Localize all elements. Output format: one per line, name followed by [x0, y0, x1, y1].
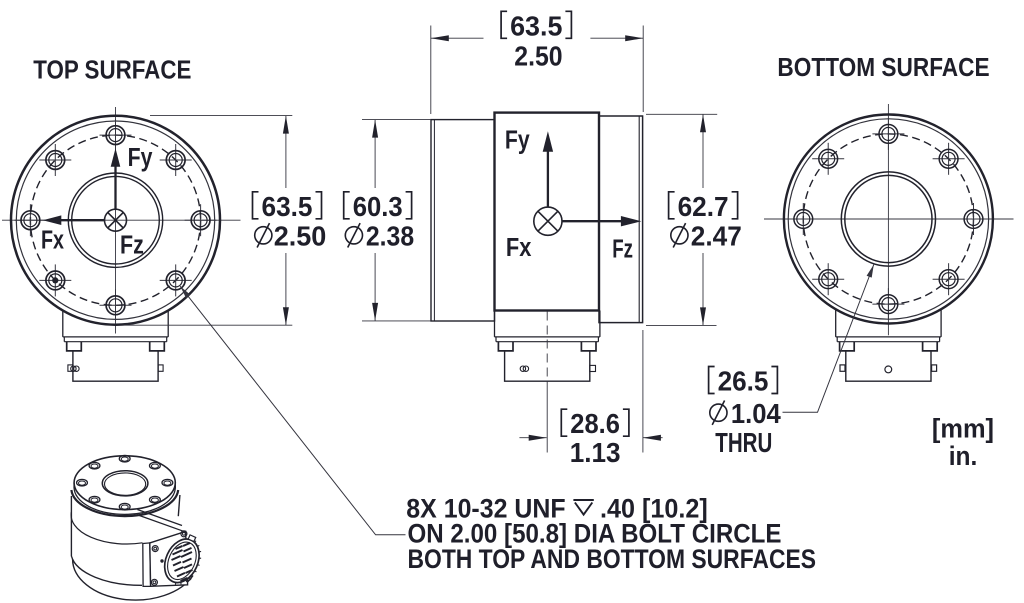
thru hole callout text [26.5]: [709, 367, 778, 394]
isometric view central hole ellipses: [102, 471, 148, 496]
right view bolt hole upper-left (10-32 UNF): [812, 143, 844, 175]
left view bolt hole upper-left (10-32 UNF): [39, 144, 71, 176]
isometric view connector plate screws: [181, 531, 187, 537]
right view bolt hole left (10-32 UNF): [787, 203, 819, 235]
svg-text:THRU: THRU: [715, 427, 772, 458]
isometric view top flange ellipse: [74, 456, 175, 510]
isometric view connector barrel: [157, 530, 209, 591]
svg-text:1.04: 1.04: [731, 398, 781, 429]
right dimension extension lines: [646, 113, 717, 115]
right view central thru hole chamfer circle: [841, 172, 935, 266]
connector body box: [846, 351, 931, 381]
left view flange inner ring circle: [16, 121, 214, 319]
isometric view bolt hole lower-right: [150, 496, 161, 503]
sensor body below flange (side walls): [495, 311, 600, 337]
side view central flange block (dia 2.50): [495, 113, 600, 311]
side view center axis symbol (circled X): [534, 207, 562, 235]
connector housing step strip: [496, 337, 598, 342]
svg-text:BOTTOM SURFACE: BOTTOM SURFACE: [777, 54, 989, 82]
isometric view bolt hole lower-left: [89, 496, 100, 503]
isometric view bolt hole top: [119, 455, 130, 462]
isometric view connector plate front face: [150, 531, 188, 586]
mid dimension line with arrows: [374, 120, 376, 188]
thread callout depth symbol: [573, 500, 593, 515]
side view Fy axis arrow: [547, 150, 549, 207]
right view horizontal centerline: [764, 218, 1014, 220]
right view bolt hole top (10-32 UNF): [872, 118, 904, 150]
isometric view body bottom front arc: [72, 557, 142, 586]
svg-text:63.5: 63.5: [510, 10, 562, 41]
side view left flange (dia 2.38 body): [431, 120, 495, 321]
isometric view flange bottom arc: [74, 488, 175, 515]
right view bolt hole upper-right (10-32 UNF): [933, 143, 965, 175]
svg-text:1.13: 1.13: [570, 437, 621, 468]
svg-text:60.3: 60.3: [353, 191, 403, 222]
sensor body below flange (side walls): [63, 310, 168, 337]
isometric view connector plate left face: [143, 543, 151, 587]
isometric view connector pins hatch: [172, 543, 193, 581]
connector body box: [505, 351, 590, 381]
isometric view flange side edges: [73, 483, 75, 489]
svg-text:[mm]: [mm]: [932, 414, 994, 444]
svg-text:28.6: 28.6: [570, 408, 620, 439]
right dimension text [62.7]: [669, 192, 738, 219]
right dimension line with arrows: [702, 114, 704, 188]
right view bolt circle (dashed, dia 2.00): [803, 134, 973, 304]
left view bolt circle (dashed, dia 2.00): [30, 135, 200, 305]
right view bolt hole bottom (10-32 UNF): [872, 288, 904, 320]
leader line from thru hole to diameter callout: [783, 265, 874, 413]
right view bolt hole lower-right (10-32 UNF): [933, 263, 965, 295]
left view connector slot detail: [68, 365, 163, 372]
svg-text:TOP SURFACE: TOP SURFACE: [33, 56, 191, 84]
right view flange outer circle (dia 2.47): [784, 115, 993, 324]
side view left flange chamfer line: [433, 120, 435, 321]
svg-text:Fx: Fx: [506, 234, 532, 262]
left view horizontal centerline: [2, 219, 241, 221]
svg-text:2.50: 2.50: [514, 41, 562, 72]
svg-text:BOTH TOP AND BOTTOM SURFACES: BOTH TOP AND BOTTOM SURFACES: [408, 544, 817, 574]
left dimension diameter symbol: [255, 223, 272, 247]
leader line from bolt hole to thread callout: [180, 286, 405, 535]
side view connector slot detail: [520, 365, 595, 371]
sensor body below flange (side walls): [836, 310, 941, 337]
connector housing step strip: [837, 337, 939, 342]
svg-text:2.50: 2.50: [274, 220, 327, 251]
svg-text:2.47: 2.47: [691, 220, 742, 251]
top dimension extension lines: [430, 26, 432, 115]
left view central thru hole chamfer circle: [68, 173, 162, 267]
isometric view bolt hole upper-left: [89, 462, 100, 469]
left view bolt hole lower-left (10-32 UNF): [39, 264, 71, 296]
isometric view bolt hole upper-right: [150, 462, 161, 469]
isometric view connector plate pin dot: [160, 559, 163, 562]
svg-text:in.: in.: [949, 441, 978, 471]
left view Fy axis arrow: [114, 164, 116, 210]
left dimension line with arrows: [285, 116, 287, 188]
isometric view connector slab top edges: [137, 510, 182, 526]
svg-text:Fx: Fx: [41, 226, 64, 254]
left view bolt hole lower-right (10-32 UNF): [160, 264, 192, 296]
mid dimension extension lines: [362, 119, 431, 121]
svg-text:2.38: 2.38: [366, 220, 414, 251]
isometric view flange-body shoulder arc (bold): [71, 490, 178, 516]
left view flange outer circle (dia 2.50): [11, 116, 220, 325]
isometric view body joint arc: [71, 512, 142, 544]
left view bolt hole right (10-32 UNF): [185, 204, 217, 236]
mid dimension text [60.3]: [344, 192, 412, 219]
isometric view base bottom silhouette arc: [73, 559, 193, 600]
isometric view bolt hole left: [77, 479, 88, 486]
bottom dimension line with arrows: [519, 437, 546, 439]
left dimension extension lines: [150, 115, 292, 117]
side view Fz axis arrow: [562, 220, 623, 222]
left view bolt hole left (10-32 UNF): [14, 204, 46, 236]
connector mounting tabs: [67, 342, 165, 351]
right dimension diameter symbol: [671, 223, 688, 247]
connector mounting tabs: [498, 342, 596, 351]
left view bolt hole top (10-32 UNF): [100, 119, 132, 151]
isometric view bolt hole bottom: [119, 503, 130, 510]
svg-text:Fz: Fz: [120, 231, 144, 259]
side view right flange edge double line: [638, 116, 640, 323]
right view flange inner ring circle: [788, 119, 988, 319]
connector mounting tabs: [840, 342, 938, 351]
bottom dimension extension line right: [642, 330, 644, 453]
connector body box: [73, 351, 158, 381]
bottom dimension text [28.6]: [561, 409, 629, 436]
mid dimension diameter symbol: [345, 223, 362, 247]
svg-text:Fy: Fy: [505, 126, 530, 154]
left view center axis symbol (circled X): [105, 209, 127, 231]
right view vertical centerline: [887, 104, 889, 335]
isometric view body side edges: [70, 496, 72, 557]
svg-text:63.5: 63.5: [262, 191, 313, 222]
left view central thru hole circle (dia 1.04): [72, 176, 160, 264]
left view bolt hole bottom (10-32 UNF): [100, 289, 132, 321]
isometric view bolt hole right: [162, 479, 173, 486]
svg-text:Fz: Fz: [612, 236, 633, 264]
top dimension line with arrows: [431, 37, 484, 39]
left view bolt hole upper-right (10-32 UNF): [160, 144, 192, 176]
right view connector hole detail: [840, 365, 937, 373]
right view bolt hole right (10-32 UNF): [958, 203, 990, 235]
left view vertical centerline: [115, 107, 117, 334]
svg-text:26.5: 26.5: [718, 366, 769, 397]
left view Fx axis arrow: [60, 219, 105, 221]
thru hole callout diameter symbol: [710, 401, 727, 425]
right view bolt hole lower-left (10-32 UNF): [812, 263, 844, 295]
svg-text:62.7: 62.7: [678, 191, 729, 222]
side view right flange plate (dia 2.47): [599, 116, 643, 323]
left dimension text [63.5]: [253, 192, 322, 219]
right view central thru hole circle (dia 1.04 THRU): [845, 175, 932, 262]
side view connector centerline (dashed + extension): [546, 312, 548, 390]
connector housing step strip: [64, 337, 166, 342]
svg-text:Fy: Fy: [128, 144, 153, 172]
top dimension text [63.5]: [501, 11, 571, 38]
